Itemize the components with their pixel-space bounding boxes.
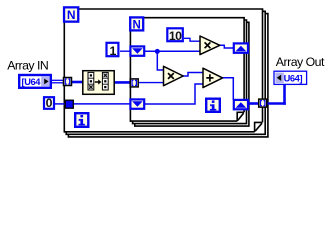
count terminal N (outer loop) xyxy=(64,7,78,22)
svg-text:N: N xyxy=(67,8,76,22)
wire: bottom shift register to add bottom input xyxy=(144,84,203,104)
wire: add output down to bottom-right shift register xyxy=(222,78,233,100)
op: multiply (middle) xyxy=(164,66,184,85)
inner frame layer 2 xyxy=(133,20,247,124)
wire: shift register out to multiply lower input xyxy=(144,50,200,52)
shift register left top (down arrow) xyxy=(130,46,144,55)
svg-text:Array Out: Array Out xyxy=(276,55,325,69)
tunnel: outer loop 0-input (solid) xyxy=(65,100,73,108)
outer frame layer 3 xyxy=(68,14,268,137)
tunnel: inner loop input (auto-index) xyxy=(130,79,138,87)
shift register right top (up arrow) xyxy=(234,43,248,52)
function: Reverse 1D Array xyxy=(83,71,114,95)
wire: constant 10 to top multiply xyxy=(184,38,200,41)
indicator terminal Array Out [U64] xyxy=(274,71,307,84)
wire: inner frame right line 1 xyxy=(243,18,245,113)
wire: junction down to middle multiply top input xyxy=(157,51,163,70)
wire: constant 1 to left shift register xyxy=(120,50,131,52)
control terminal Array IN [U64] xyxy=(19,75,51,88)
svg-text:1: 1 xyxy=(109,44,116,58)
inner for-loop frame xyxy=(129,17,249,126)
inner loop fold corner flap xyxy=(237,112,244,121)
wire: outer frame left edge xyxy=(63,8,65,132)
count terminal N (inner loop) xyxy=(130,17,143,31)
op: add xyxy=(203,68,223,87)
wire: inner frame bottom line 1 xyxy=(130,120,237,122)
tunnel: outer loop input (auto-index) xyxy=(64,78,72,86)
wire: Array IN double array wire xyxy=(51,80,64,83)
node: wire junction dot xyxy=(155,49,160,54)
outer loop fold corner flap xyxy=(255,122,263,131)
wire: Reverse 1D Array to inner tunnel (thick) xyxy=(114,81,131,84)
svg-text:U64]: U64] xyxy=(284,74,303,84)
wire: outer frame top edge xyxy=(64,8,264,10)
outer for-loop frame xyxy=(64,8,268,137)
constant 10 xyxy=(167,28,183,43)
wire: tunnel to Reverse 1D Array (thick) xyxy=(71,81,83,84)
outer frame layer 2 xyxy=(66,11,265,134)
svg-text:0: 0 xyxy=(46,96,53,110)
wire: outer frame right line 1 xyxy=(262,9,264,122)
tunnel: outer loop output (auto-index) xyxy=(259,99,267,107)
op: multiply (top) xyxy=(200,36,220,55)
wire: inner frame top edge xyxy=(129,17,245,19)
svg-text:N: N xyxy=(133,19,141,31)
inner frame layer 3 xyxy=(135,22,249,126)
svg-text:[U64: [U64 xyxy=(22,77,42,87)
wire: middle multiply output to add top input xyxy=(183,73,203,77)
wire: top multiply output to top-right shift register xyxy=(220,45,234,48)
svg-text:Array IN: Array IN xyxy=(7,59,48,73)
iteration terminal i (inner loop) xyxy=(206,99,220,112)
wire: bottom-right shift register out through output tunnel to Array Out (thick) xyxy=(249,102,260,105)
shift register right bottom (up arrow) xyxy=(234,100,248,109)
wire: inner tunnel to middle multiply bottom input xyxy=(138,82,164,84)
constant 1 xyxy=(107,43,119,58)
constant 0 xyxy=(44,96,54,110)
svg-text:10: 10 xyxy=(169,29,182,43)
wire: outer frame bottom line 1 xyxy=(64,131,254,133)
shift register left bottom (down arrow) xyxy=(130,99,144,108)
wire: solid tunnel to bottom-left shift register xyxy=(73,103,131,105)
wire: constant 0 into solid tunnel xyxy=(55,103,66,105)
wire: inner frame left edge xyxy=(129,17,131,122)
iteration terminal i (outer loop) xyxy=(75,113,88,127)
